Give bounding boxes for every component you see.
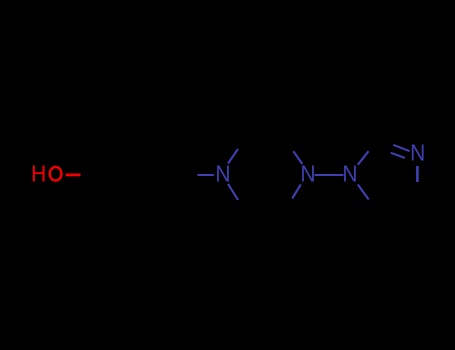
bond C4-N piperazine blue half (into left N) (198, 174, 214, 176)
bond N1'-C5 down-right blue half (imidazole) (358, 185, 369, 200)
bond N1-C up-right blue half (piperazine) (228, 149, 238, 164)
svg-text:N: N (215, 161, 230, 187)
bond N3-C4 vertical blue half (imidazole) (416, 166, 419, 182)
svg-text:N: N (300, 161, 315, 187)
bond N1-C down-right blue half (piperazine) (228, 184, 238, 200)
bond N1'-C2 up-right blue half (imidazole) (358, 151, 369, 165)
svg-text:N: N (410, 139, 425, 165)
bond N4-C up-left blue half (piperazine) (293, 151, 302, 164)
atom label HO : letter O drawn as ring (50, 167, 62, 181)
svg-text:N: N (342, 161, 357, 187)
double bond C2=N3 inner line blue half (imidazole) (391, 153, 405, 158)
bond N4-C down-left blue half (piperazine) (292, 184, 301, 198)
bond O-C1 red half (HO to ring) (66, 173, 81, 176)
double bond C2=N3 main line blue half (imidazole) (393, 145, 409, 151)
svg-text:H: H (31, 161, 46, 187)
bond N4-N1' (piperazine N to imidazole N, full blue) (315, 174, 344, 176)
